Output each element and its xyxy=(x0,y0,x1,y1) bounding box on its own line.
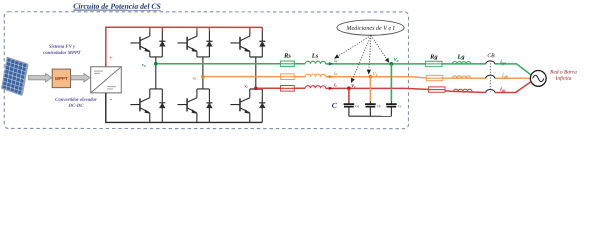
Q1 antiparallel diode xyxy=(159,27,165,57)
resistor Rg phase a xyxy=(426,61,442,66)
svg-text:-: - xyxy=(110,95,113,103)
svg-text:Rg: Rg xyxy=(429,54,438,61)
wire: phase c drop to capacitor xyxy=(348,88,350,101)
capacitor Cb xyxy=(365,103,376,105)
wire: phase b line (orange) xyxy=(203,76,305,78)
svg-text:Vc: Vc xyxy=(351,83,356,89)
svg-text:vb: vb xyxy=(193,75,197,81)
svg-text:Red o Barra: Red o Barra xyxy=(549,70,577,76)
breaker pole phase b xyxy=(486,75,495,78)
DC-DC boost converter block U1 xyxy=(91,67,122,93)
svg-text:Ls: Ls xyxy=(311,53,319,60)
svg-text:Cc: Cc xyxy=(398,104,402,108)
wire: phase a drop to capacitor xyxy=(390,64,392,102)
inductor Lg phase b xyxy=(452,76,470,78)
svg-text:iga: iga xyxy=(500,60,506,66)
Q5 transistor collector lead xyxy=(249,27,251,36)
Q3 transistor collector lead xyxy=(196,27,198,36)
Q2 transistor symbol xyxy=(230,98,249,123)
wire: leg midpoint vertical xyxy=(202,57,204,89)
svg-text:C: C xyxy=(332,101,338,110)
resistor Rg phase c xyxy=(429,87,445,92)
leg midpoint bar (upper unit emitter bar) xyxy=(150,56,163,58)
inductor Lg phase c xyxy=(454,89,472,91)
svg-text:Circuito de Potencia del CS: Circuito de Potencia del CS xyxy=(73,2,161,11)
inductor Ls phase a xyxy=(305,61,325,64)
svg-text:vc: vc xyxy=(245,83,249,89)
resistor Rs phase b xyxy=(281,74,295,80)
Q6 emitter arrowhead xyxy=(192,109,197,113)
svg-text:MPPT: MPPT xyxy=(55,76,68,81)
svg-text:Ca: Ca xyxy=(355,104,359,108)
Q1 emitter arrowhead xyxy=(144,48,149,52)
resistor Rs phase c xyxy=(281,85,295,91)
block arrow: panel to MPPT xyxy=(28,73,51,82)
lower unit collector bar xyxy=(250,88,263,90)
svg-text:Vb: Vb xyxy=(373,71,378,77)
capacitor Cc xyxy=(386,103,397,105)
CB gap masks xyxy=(486,63,495,65)
Q3 transistor symbol xyxy=(178,36,197,57)
Q1 transistor collector lead xyxy=(149,27,151,36)
node Vb measurement point xyxy=(368,75,372,79)
svg-text:Rs: Rs xyxy=(283,53,291,60)
Q6 transistor symbol xyxy=(177,98,196,123)
Q6 transistor collector lead xyxy=(196,89,198,98)
Q1 transistor symbol xyxy=(130,36,149,57)
inductor Ls phase c xyxy=(305,86,325,89)
Q5 emitter arrowhead xyxy=(244,48,249,52)
MPPT controller block xyxy=(52,69,70,88)
leg midpoint bar (upper unit emitter bar) xyxy=(197,56,210,58)
Q4 transistor collector lead xyxy=(149,89,151,98)
solar PV panel xyxy=(2,57,29,95)
Q4 emitter arrowhead xyxy=(144,109,149,113)
wire: positive DC link (+) xyxy=(106,27,263,66)
wire: capacitor neutral bus xyxy=(349,115,391,117)
Q4 transistor symbol xyxy=(130,98,149,123)
node Va measurement point xyxy=(390,62,394,66)
svg-text:ia: ia xyxy=(334,58,337,64)
Q2 transistor collector lead xyxy=(249,89,251,98)
svg-text:CB: CB xyxy=(487,53,495,59)
dashed measurement arrow xyxy=(369,35,371,70)
lower unit collector bar xyxy=(150,88,163,90)
inductor Ls phase b xyxy=(305,74,325,77)
svg-text:controlador MPPT: controlador MPPT xyxy=(43,51,82,56)
node Vc measurement point xyxy=(347,86,351,90)
wire: negative DC link (-) xyxy=(106,93,263,123)
wire: leg midpoint vertical xyxy=(155,57,157,89)
svg-text:Va: Va xyxy=(394,57,399,63)
Q4 antiparallel diode xyxy=(159,89,165,123)
block arrow: MPPT to DC-DC xyxy=(71,73,90,82)
svg-text:va: va xyxy=(142,62,146,68)
Q2 antiparallel diode xyxy=(259,89,265,123)
svg-text:Sistema FV y: Sistema FV y xyxy=(49,45,76,50)
wire: phase b drop to capacitor xyxy=(369,77,371,102)
lower unit collector bar xyxy=(197,88,210,90)
breaker gang dotted link xyxy=(489,61,491,93)
current arrow ia xyxy=(329,62,334,65)
resistor Rg phase b xyxy=(426,75,442,80)
svg-text:ic: ic xyxy=(334,82,337,88)
Q6 antiparallel diode xyxy=(206,89,212,123)
svg-text:ib: ib xyxy=(334,71,337,77)
Q5 antiparallel diode xyxy=(259,27,265,57)
svg-text:igb: igb xyxy=(502,73,508,79)
svg-text:Lg: Lg xyxy=(456,54,465,61)
current arrow ic xyxy=(329,87,334,90)
svg-text:Infinita: Infinita xyxy=(555,75,572,82)
resistor Rs phase a xyxy=(281,61,295,67)
breaker pole phase a xyxy=(486,61,495,64)
dashed boundary of power-circuit block xyxy=(4,12,408,129)
annotation ellipse: Mediciones de V e I xyxy=(337,20,404,35)
svg-text:DC-DC: DC-DC xyxy=(68,104,85,109)
svg-text:Mediciones de V e I: Mediciones de V e I xyxy=(345,26,395,32)
red stubs from positive rail into legs xyxy=(149,27,151,31)
svg-text:Cb: Cb xyxy=(377,104,381,108)
Q5 transistor symbol xyxy=(230,36,249,57)
dashed measurement arrow xyxy=(338,35,371,56)
current arrow ib xyxy=(329,75,334,78)
svg-text:Convertidor elevador: Convertidor elevador xyxy=(55,98,97,103)
Q2 emitter arrowhead xyxy=(244,109,249,113)
svg-text:+: + xyxy=(109,55,113,62)
leg midpoint bar (upper unit emitter bar) xyxy=(250,56,262,58)
AC source: infinite bus xyxy=(530,71,546,87)
dashed measurement arrow xyxy=(371,35,387,59)
inductor Lg phase a xyxy=(452,62,470,64)
breaker pole phase c xyxy=(486,89,495,92)
wire: phase c line (red) xyxy=(256,87,305,89)
wire: phase a line (green) xyxy=(156,63,305,65)
capacitor Ca xyxy=(344,103,355,105)
wire: leg midpoint vertical xyxy=(255,57,257,89)
svg-text:igc: igc xyxy=(500,87,506,93)
Q3 antiparallel diode xyxy=(206,27,212,57)
Q3 emitter arrowhead xyxy=(192,48,197,52)
dashed measurement arrow xyxy=(353,35,371,79)
